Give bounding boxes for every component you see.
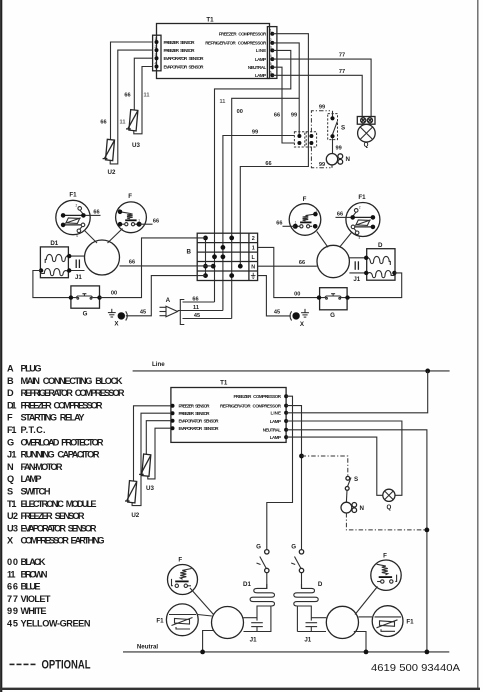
svg-text:S: S (341, 125, 345, 132)
svg-text:VIOLET: VIOLET (21, 594, 51, 604)
svg-text:N: N (346, 156, 351, 163)
svg-text:OVERLOAD PROTECTOR: OVERLOAD PROTECTOR (21, 437, 104, 447)
svg-text:66: 66 (129, 260, 135, 266)
svg-text:MAIN CONNECTING BLOCK: MAIN CONNECTING BLOCK (21, 376, 123, 386)
svg-text:N: N (251, 264, 255, 270)
svg-text:G: G (330, 312, 335, 319)
svg-text:G: G (256, 544, 261, 551)
svg-text:11: 11 (120, 120, 126, 126)
svg-text:T1: T1 (220, 380, 228, 387)
svg-text:66: 66 (276, 221, 282, 227)
svg-text:ELECTRONIC MODULE: ELECTRONIC MODULE (21, 499, 97, 509)
svg-text:FREEZER COMPRESSOR: FREEZER COMPRESSOR (234, 394, 282, 399)
svg-text:2: 2 (316, 209, 318, 213)
svg-text:1: 1 (155, 37, 157, 41)
svg-text:L: L (252, 255, 256, 261)
svg-text:11: 11 (144, 93, 150, 99)
svg-text:LINE: LINE (256, 48, 267, 53)
svg-text:LAMP: LAMP (255, 57, 266, 62)
svg-text:D: D (378, 242, 383, 249)
svg-text:F1: F1 (156, 618, 164, 625)
svg-text:COMPRESSOR EARTHING: COMPRESSOR EARTHING (21, 536, 105, 546)
svg-text:G: G (83, 311, 88, 318)
svg-text:66: 66 (124, 93, 130, 99)
svg-text:99: 99 (7, 606, 18, 616)
svg-text:NEUTRAL: NEUTRAL (263, 428, 282, 433)
svg-text:U3: U3 (146, 485, 154, 492)
svg-text:T1: T1 (206, 17, 214, 24)
svg-text:1: 1 (270, 29, 272, 33)
svg-text:EVAPORATOR SENSOR: EVAPORATOR SENSOR (179, 426, 220, 431)
svg-text:00: 00 (237, 109, 243, 115)
svg-text:F1: F1 (7, 425, 17, 435)
svg-text:00: 00 (7, 557, 18, 567)
svg-text:45: 45 (194, 313, 200, 319)
svg-text:X: X (300, 321, 305, 328)
svg-text:F: F (383, 553, 387, 560)
svg-text:45: 45 (7, 619, 18, 629)
svg-text:X: X (7, 536, 14, 546)
svg-text:D1: D1 (243, 581, 251, 588)
svg-text:00: 00 (294, 292, 300, 298)
svg-text:PLUG: PLUG (21, 364, 42, 374)
svg-text:11: 11 (193, 305, 199, 311)
svg-text:1: 1 (138, 219, 140, 223)
svg-text:5: 5 (270, 62, 272, 66)
svg-text:N: N (7, 462, 14, 472)
svg-text:G: G (7, 437, 14, 447)
svg-text:2: 2 (155, 45, 157, 49)
svg-text:3: 3 (155, 53, 157, 57)
svg-text:BROWN: BROWN (21, 569, 48, 579)
svg-text:T1: T1 (7, 499, 17, 509)
svg-text:2: 2 (118, 206, 120, 210)
svg-text:LAMP: LAMP (270, 419, 281, 424)
svg-text:F: F (128, 193, 132, 200)
svg-text:FREEZER SENSOR: FREEZER SENSOR (21, 511, 85, 521)
svg-text:Q: Q (7, 474, 14, 484)
svg-text:D1: D1 (7, 400, 17, 410)
svg-text:66: 66 (274, 113, 280, 119)
svg-text:S: S (354, 476, 358, 483)
svg-text:66: 66 (7, 582, 18, 592)
svg-text:2: 2 (270, 38, 272, 42)
svg-text:00: 00 (111, 291, 117, 297)
svg-text:99: 99 (336, 146, 342, 152)
svg-text:4: 4 (76, 234, 78, 238)
svg-text:A: A (7, 364, 14, 374)
svg-text:66: 66 (337, 212, 343, 218)
svg-text:REFRIGERATOR COMPRESSOR: REFRIGERATOR COMPRESSOR (220, 403, 282, 408)
svg-text:J1: J1 (304, 637, 311, 644)
svg-text:99: 99 (252, 130, 258, 136)
svg-text:F1: F1 (358, 194, 366, 201)
svg-text:FREEZER SENSOR: FREEZER SENSOR (164, 48, 196, 53)
svg-text:A: A (166, 297, 171, 304)
svg-text:P.T.C.: P.T.C. (21, 425, 46, 435)
svg-text:4: 4 (155, 62, 157, 66)
svg-text:66: 66 (93, 210, 99, 216)
svg-text:REFRIGERATOR COMPRESSOR: REFRIGERATOR COMPRESSOR (205, 41, 267, 46)
svg-text:OPTIONAL: OPTIONAL (42, 658, 91, 672)
svg-text:99: 99 (319, 162, 325, 168)
svg-text:4619 500 93440A: 4619 500 93440A (371, 662, 460, 674)
svg-text:66: 66 (153, 218, 159, 224)
svg-text:99: 99 (291, 113, 297, 119)
svg-text:77: 77 (339, 69, 345, 75)
svg-text:WHITE: WHITE (21, 606, 47, 616)
svg-text:D: D (318, 581, 323, 588)
svg-text:U3: U3 (7, 523, 18, 533)
svg-text:66: 66 (100, 120, 106, 126)
svg-text:Line: Line (152, 361, 165, 368)
svg-text:EVAPORATOR SENSOR: EVAPORATOR SENSOR (179, 419, 220, 424)
svg-text:LAMP: LAMP (21, 474, 42, 484)
svg-text:YELLOW-GREEN: YELLOW-GREEN (21, 619, 91, 629)
svg-text:Q: Q (364, 142, 369, 149)
svg-text:11: 11 (220, 99, 226, 105)
svg-text:4: 4 (359, 236, 361, 240)
svg-text:J1: J1 (75, 274, 82, 281)
svg-text:3: 3 (270, 45, 272, 49)
svg-text:66: 66 (299, 260, 305, 266)
svg-text:U2: U2 (131, 512, 139, 519)
svg-text:N: N (360, 505, 365, 512)
svg-text:D: D (7, 388, 14, 398)
svg-text:F: F (7, 413, 13, 423)
svg-text:X: X (114, 321, 119, 328)
svg-text:U2: U2 (7, 511, 18, 521)
svg-text:EVAPORATOR SENSOR: EVAPORATOR SENSOR (21, 523, 97, 533)
svg-text:BLUE: BLUE (21, 582, 41, 592)
svg-text:U2: U2 (108, 169, 116, 176)
svg-text:66: 66 (192, 297, 198, 303)
svg-text:Q: Q (386, 504, 391, 511)
svg-text:F: F (178, 557, 182, 564)
svg-text:FAN-MOTOR: FAN-MOTOR (21, 462, 63, 472)
svg-text:77: 77 (7, 594, 18, 604)
svg-text:S: S (7, 487, 13, 497)
svg-text:FREEZER SENSOR: FREEZER SENSOR (179, 411, 211, 416)
svg-text:J1: J1 (7, 450, 17, 460)
svg-text:EVAPORATOR SENSOR: EVAPORATOR SENSOR (164, 56, 205, 61)
svg-text:2: 2 (76, 204, 78, 208)
svg-text:2: 2 (359, 206, 361, 210)
svg-text:J1: J1 (250, 637, 257, 644)
svg-text:1: 1 (252, 246, 255, 252)
svg-text:FREEZER COMPRESSOR: FREEZER COMPRESSOR (219, 32, 267, 37)
svg-text:F1: F1 (406, 619, 414, 626)
svg-text:SWITCH: SWITCH (21, 487, 51, 497)
svg-text:FREEZER COMPRESSOR: FREEZER COMPRESSOR (21, 400, 103, 410)
svg-text:LAMP: LAMP (255, 73, 266, 78)
svg-text:FREEZER SENSOR: FREEZER SENSOR (164, 40, 196, 45)
svg-text:STARTING RELAY: STARTING RELAY (21, 413, 85, 423)
svg-text:Neutral: Neutral (137, 644, 159, 651)
svg-text:4: 4 (270, 54, 272, 58)
svg-text:F1: F1 (69, 192, 77, 199)
svg-text:LINE: LINE (271, 411, 282, 416)
svg-text:G: G (291, 544, 296, 551)
svg-text:U3: U3 (132, 142, 140, 149)
svg-text:B: B (7, 376, 14, 386)
svg-text:FREEZER SENSOR: FREEZER SENSOR (179, 404, 211, 409)
svg-text:11: 11 (7, 569, 16, 579)
svg-text:45: 45 (274, 310, 280, 316)
svg-text:D1: D1 (50, 240, 58, 247)
svg-text:B: B (187, 249, 192, 256)
svg-text:F: F (303, 196, 307, 203)
svg-text:LAMP: LAMP (270, 435, 281, 440)
svg-text:6: 6 (270, 70, 272, 74)
svg-text:REFRIGERATOR COMPRESSOR: REFRIGERATOR COMPRESSOR (21, 388, 125, 398)
svg-text:99: 99 (319, 105, 325, 111)
svg-text:66: 66 (265, 161, 271, 167)
svg-text:NEUTRAL: NEUTRAL (248, 65, 267, 70)
svg-text:77: 77 (339, 53, 345, 59)
svg-text:EVAPORATOR SENSOR: EVAPORATOR SENSOR (164, 64, 205, 69)
svg-text:1: 1 (295, 221, 297, 225)
svg-text:J1: J1 (353, 276, 360, 283)
svg-text:45: 45 (140, 309, 146, 315)
svg-text:BLACK: BLACK (21, 557, 46, 567)
svg-text:RUNNING CAPACITOR: RUNNING CAPACITOR (21, 450, 100, 460)
svg-text:2: 2 (252, 236, 255, 242)
